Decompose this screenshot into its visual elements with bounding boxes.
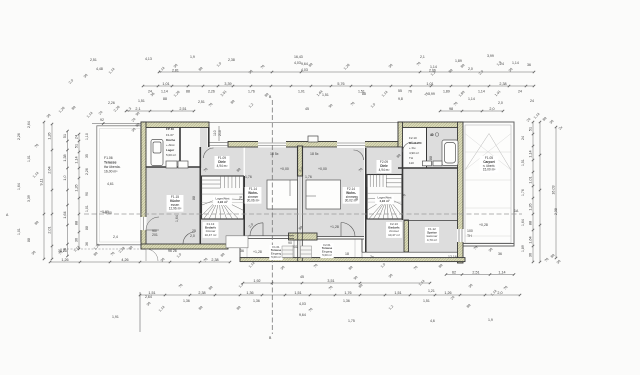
dimension chain top 1	[158, 71, 535, 73]
svg-text:2,38: 2,38	[198, 291, 205, 295]
svg-text:9,8: 9,8	[398, 97, 403, 101]
svg-text:24: 24	[518, 90, 522, 94]
svg-text:88: 88	[75, 221, 79, 225]
dimension chain left 3	[66, 130, 68, 257]
wall top center	[228, 142, 398, 148]
svg-text:2,01: 2,01	[48, 226, 52, 233]
svg-text:2,0: 2,0	[468, 67, 473, 71]
svg-text:1,64: 1,64	[175, 215, 179, 222]
svg-text:2,38: 2,38	[228, 58, 235, 62]
scattered left annotations	[27, 105, 121, 242]
svg-text:Bad&WC: Bad&WC	[409, 141, 423, 145]
svg-text:TH: TH	[467, 234, 472, 238]
svg-text:+0,00: +0,00	[103, 211, 112, 215]
svg-text:+0,00: +0,00	[318, 167, 327, 171]
window left living top	[258, 141, 286, 148]
room floor diele left	[202, 147, 244, 176]
svg-text:1,26: 1,26	[48, 132, 52, 139]
svg-text:2,38: 2,38	[499, 82, 506, 86]
room floor bath right	[427, 127, 458, 168]
dim text top overall	[172, 61, 531, 73]
svg-text:4,03: 4,03	[299, 302, 306, 306]
room floor diele right	[367, 148, 402, 175]
svg-text:2,38: 2,38	[211, 258, 218, 262]
svg-text:88: 88	[85, 226, 89, 230]
niche box at left entry step	[226, 236, 248, 248]
door swing diele right	[354, 150, 364, 160]
svg-text:F1.06: F1.06	[104, 156, 113, 160]
label bedarfszimmer left	[203, 222, 219, 238]
carport annotations	[467, 223, 488, 238]
dimension chain top 3a	[125, 110, 195, 112]
svg-text:5,00 m²: 5,00 m²	[271, 255, 281, 259]
svg-text:24: 24	[75, 135, 79, 139]
svg-text:4,94 m²: 4,94 m²	[379, 168, 390, 172]
svg-text:92: 92	[100, 118, 104, 122]
svg-text:30,06 m²: 30,06 m²	[247, 199, 260, 203]
kitchen counter left	[151, 140, 188, 169]
svg-text:88: 88	[529, 221, 533, 225]
svg-text:12 16: 12 16	[448, 255, 457, 259]
label living right	[343, 187, 360, 204]
dimension chain right 1	[532, 121, 534, 263]
svg-text:4,94 m²: 4,94 m²	[380, 199, 390, 203]
svg-text:1,14: 1,14	[468, 97, 475, 101]
axis labels	[6, 95, 519, 340]
svg-text:1,14: 1,14	[478, 90, 485, 94]
svg-text:1,9: 1,9	[488, 318, 493, 322]
svg-text:16,43: 16,43	[294, 55, 303, 59]
svg-text:3,39: 3,39	[27, 195, 31, 202]
svg-text:36: 36	[529, 253, 533, 257]
svg-text:2,0: 2,0	[489, 107, 494, 111]
wall bottom lower section	[240, 258, 465, 262]
svg-text:36: 36	[527, 63, 531, 67]
svg-text:1,51: 1,51	[138, 99, 145, 103]
window right wall	[457, 229, 464, 242]
svg-text:1,01: 1,01	[529, 176, 533, 183]
svg-text:9,64: 9,64	[301, 62, 308, 66]
label diele right	[377, 160, 392, 173]
window top opening between bump and center	[209, 143, 228, 146]
svg-text:+0,28: +0,28	[479, 223, 488, 227]
label kueche bump	[166, 127, 176, 157]
svg-text:9,64: 9,64	[299, 313, 306, 317]
svg-text:35: 35	[85, 154, 89, 158]
svg-text:88: 88	[163, 97, 167, 101]
svg-text:4,61: 4,61	[107, 182, 114, 186]
svg-text:2,51: 2,51	[179, 107, 186, 111]
svg-text:+ Du: + Du	[409, 146, 416, 150]
svg-text:40: 40	[430, 133, 434, 137]
svg-text:36: 36	[240, 249, 244, 253]
porch steps right	[301, 246, 312, 258]
room floor living left	[245, 147, 298, 236]
svg-text:16,00 m²: 16,00 m²	[104, 170, 118, 174]
svg-text:1,76: 1,76	[521, 189, 525, 196]
left inner text column	[85, 133, 89, 246]
svg-text:51: 51	[529, 127, 533, 131]
svg-text:2,51: 2,51	[198, 100, 205, 104]
dimension chain bottom 2	[445, 273, 515, 275]
svg-text:16,03: 16,03	[552, 185, 556, 194]
svg-text:2,26: 2,26	[17, 133, 21, 140]
svg-text:tlw überda.: tlw überda.	[104, 165, 121, 169]
svg-text:76: 76	[239, 196, 243, 200]
wall party upper	[297, 146, 302, 176]
svg-text:1,14: 1,14	[161, 90, 168, 94]
svg-text:2,26: 2,26	[108, 101, 115, 105]
svg-text:1,01: 1,01	[162, 82, 169, 86]
svg-text:1,92: 1,92	[253, 279, 260, 283]
interior opening marks	[175, 152, 406, 231]
scattered bottom annotations	[58, 245, 502, 323]
svg-text:Lager: Lager	[166, 148, 175, 152]
svg-text:2,4: 2,4	[113, 235, 118, 239]
svg-text:76: 76	[408, 90, 412, 94]
ground dashed line bottom left	[60, 248, 141, 250]
svg-text:1,64: 1,64	[63, 211, 67, 218]
label living left	[245, 187, 262, 204]
svg-text:10,47 m²: 10,47 m²	[388, 233, 400, 237]
wall right exterior	[458, 122, 464, 263]
scattered top annotations	[90, 54, 534, 105]
svg-text:51: 51	[75, 144, 79, 148]
svg-text:36: 36	[498, 252, 502, 256]
svg-text:24: 24	[530, 99, 534, 103]
svg-text:4,6: 4,6	[430, 319, 435, 323]
svg-text:210: 210	[218, 130, 222, 136]
svg-text:1,36: 1,36	[246, 291, 253, 295]
staircase right unit	[367, 175, 402, 220]
svg-text:9,11: 9,11	[40, 179, 44, 186]
svg-text:88: 88	[355, 196, 359, 200]
svg-text:3,51: 3,51	[327, 279, 334, 283]
door swing bath	[403, 142, 413, 152]
svg-text:+ Abst: + Abst	[166, 143, 175, 147]
svg-text:+1,28: +1,28	[330, 225, 339, 229]
svg-text:+0,00: +0,00	[280, 167, 289, 171]
svg-text:45: 45	[305, 107, 309, 111]
svg-text:4,94 m²: 4,94 m²	[218, 200, 228, 204]
door swing kitchen	[183, 232, 195, 244]
svg-text:1,26: 1,26	[61, 258, 68, 262]
svg-text:1,01: 1,01	[426, 82, 433, 86]
extra annotation noise	[17, 60, 558, 290]
carport right	[462, 122, 514, 246]
staircase left unit label	[213, 196, 232, 205]
svg-text:+1,28: +1,28	[253, 250, 262, 254]
terrace top marks	[100, 117, 140, 133]
wall speise left	[404, 220, 409, 252]
thin wall bottom left living	[228, 236, 294, 258]
axis A horizontal dashed	[84, 213, 522, 215]
svg-text:88: 88	[192, 196, 196, 200]
staircase left unit	[202, 176, 244, 219]
interior walls right unit	[366, 147, 458, 252]
svg-text:4,94 m²: 4,94 m²	[217, 164, 228, 168]
window dim line at bump	[218, 126, 220, 141]
svg-text:1,75: 1,75	[348, 319, 355, 323]
room floor speise right	[402, 168, 458, 252]
room floor living right	[303, 148, 365, 237]
label bad	[409, 136, 423, 165]
scattered right annotations	[526, 112, 564, 265]
right inner text column	[521, 136, 525, 252]
svg-text:1,14: 1,14	[75, 156, 79, 163]
svg-text:1,01: 1,01	[17, 228, 21, 235]
svg-text:2x: 2x	[370, 255, 374, 259]
interior walls left unit	[146, 127, 244, 244]
carport label	[480, 156, 499, 173]
svg-text:4,03: 4,03	[301, 68, 308, 72]
svg-text:100: 100	[467, 229, 473, 233]
outside step arc bottom left	[146, 249, 158, 261]
label entry right	[320, 243, 333, 258]
section mark bottom left	[139, 292, 141, 332]
dimension chain bottom 4	[139, 294, 521, 296]
svg-text:2,38: 2,38	[554, 208, 558, 215]
svg-text:1,26: 1,26	[444, 291, 451, 295]
svg-text:110: 110	[213, 130, 217, 136]
svg-text:18 5x: 18 5x	[310, 152, 319, 156]
svg-text:1,14: 1,14	[512, 61, 519, 65]
interior small marks	[103, 167, 339, 254]
svg-text:88: 88	[429, 156, 433, 160]
wall bottom at party wall	[289, 233, 318, 240]
svg-text:96 26: 96 26	[168, 249, 177, 253]
svg-text:4,13: 4,13	[145, 57, 152, 61]
axis B vertical dashed	[271, 100, 273, 334]
svg-text:1,14: 1,14	[430, 65, 437, 69]
svg-text:Terasse: Terasse	[104, 161, 117, 165]
svg-text:88: 88	[27, 238, 31, 242]
svg-text:2,0: 2,0	[190, 234, 195, 238]
dimension chain bottom 1	[49, 261, 231, 263]
svg-text:88: 88	[186, 90, 190, 94]
bath divider wall	[426, 127, 428, 168]
svg-text:36: 36	[85, 242, 89, 246]
terrace left	[97, 126, 143, 245]
svg-text:2,51: 2,51	[90, 58, 97, 62]
thin wall bottom right living	[317, 237, 458, 253]
svg-text:4,70 m²: 4,70 m²	[427, 238, 437, 242]
svg-text:5,00 m²: 5,00 m²	[322, 253, 332, 257]
svg-text:4,26: 4,26	[121, 258, 128, 262]
svg-text:TH: TH	[409, 156, 413, 160]
svg-text:2,26: 2,26	[85, 168, 89, 175]
svg-text:2,26: 2,26	[208, 90, 215, 94]
balcony overhang outline	[209, 123, 398, 142]
svg-text:F2.10: F2.10	[409, 136, 417, 140]
svg-text:Küche: Küche	[166, 138, 176, 142]
door opening left wall	[141, 217, 160, 230]
svg-text:1,21: 1,21	[428, 289, 435, 293]
door swing diele left	[204, 148, 214, 158]
svg-text:1,76: 1,76	[248, 90, 255, 94]
svg-text:F1.07: F1.07	[166, 133, 174, 137]
svg-text:98: 98	[449, 107, 453, 111]
svg-text:10,47 m²: 10,47 m²	[205, 233, 217, 237]
svg-text:45: 45	[300, 275, 304, 279]
svg-text:2,81: 2,81	[172, 69, 179, 73]
svg-text:1,64: 1,64	[529, 236, 533, 243]
svg-text:1,36: 1,36	[343, 299, 350, 303]
dimension chain left 1	[43, 121, 45, 260]
svg-text:1,64: 1,64	[17, 183, 21, 190]
label diele left	[215, 156, 230, 169]
svg-text:201: 201	[152, 233, 158, 237]
wall left exterior	[141, 122, 146, 249]
svg-text:62: 62	[452, 270, 456, 274]
party wall center lines	[298, 146, 303, 261]
svg-text:1,76: 1,76	[305, 175, 312, 179]
wall top of bath bump	[398, 122, 462, 128]
svg-text:2,64: 2,64	[48, 166, 52, 173]
svg-text:4,90 m²: 4,90 m²	[409, 151, 419, 155]
svg-text:12,96 m²: 12,96 m²	[169, 207, 182, 211]
svg-text:1,76: 1,76	[344, 291, 351, 295]
svg-text:1,89: 1,89	[443, 90, 450, 94]
label kitchen left	[167, 195, 184, 212]
svg-text:2,64: 2,64	[27, 121, 31, 128]
svg-text:2,64: 2,64	[145, 295, 152, 299]
bath door mark	[430, 133, 434, 137]
svg-text:1A: 1A	[514, 209, 519, 213]
svg-text:1,01: 1,01	[85, 205, 89, 212]
svg-text:1,64: 1,64	[521, 219, 525, 226]
svg-text:1,38: 1,38	[63, 154, 67, 161]
porch left entry	[240, 239, 294, 258]
svg-text:15,00 m²: 15,00 m²	[483, 168, 496, 172]
svg-text:1,89: 1,89	[521, 245, 525, 252]
svg-text:1,91: 1,91	[112, 315, 119, 319]
svg-text:1,76: 1,76	[245, 175, 252, 179]
terrace top dim line	[92, 122, 142, 124]
furniture left living	[267, 180, 298, 209]
svg-text:2,1: 2,1	[420, 55, 425, 59]
door swing right living to porch	[341, 223, 355, 237]
svg-text:88: 88	[362, 92, 366, 96]
svg-text:FP 40: FP 40	[166, 127, 174, 131]
svg-text:1,26: 1,26	[75, 184, 79, 191]
porch steps left	[282, 246, 293, 258]
svg-text:5,00 m²: 5,00 m²	[166, 153, 176, 157]
svg-text:1,0: 1,0	[63, 175, 67, 180]
window right living top	[337, 141, 365, 148]
svg-text:1,36: 1,36	[253, 299, 260, 303]
svg-text:1,14: 1,14	[529, 150, 533, 157]
svg-text:3,99: 3,99	[487, 54, 494, 58]
svg-text:1,51: 1,51	[521, 159, 525, 166]
svg-text:36: 36	[75, 238, 79, 242]
svg-text:1,26: 1,26	[529, 203, 533, 210]
wall left of bath bump	[398, 122, 403, 147]
svg-text:2,1: 2,1	[135, 107, 140, 111]
svg-text:1,51: 1,51	[294, 291, 301, 295]
svg-text:1,14: 1,14	[498, 270, 505, 274]
wall top of kitchen bump	[141, 122, 209, 128]
chimney block top wall	[308, 136, 318, 142]
svg-text:25: 25	[192, 229, 196, 233]
room floor kitchen bump right part	[200, 127, 207, 168]
terrace annotations	[100, 182, 118, 239]
dimension chain right 3	[555, 126, 557, 259]
svg-text:55: 55	[398, 89, 402, 93]
dimension chain right 2	[539, 121, 541, 263]
furniture right living	[306, 180, 341, 209]
dimension chain bottom 3	[242, 282, 431, 284]
window dims	[213, 130, 433, 160]
door swing left living to porch	[250, 223, 263, 236]
bath fixtures right	[422, 140, 458, 166]
dimension chain left 4	[78, 133, 80, 250]
room floor kitchen-essen left	[146, 168, 200, 245]
svg-text:1,51: 1,51	[423, 299, 430, 303]
wall bottom left	[141, 244, 228, 249]
svg-text:1,10: 1,10	[85, 133, 89, 140]
dimension chain top 3b	[439, 110, 504, 112]
label entry left	[269, 245, 282, 260]
svg-text:1,01: 1,01	[298, 90, 305, 94]
svg-text:4,03: 4,03	[294, 61, 301, 65]
svg-text:18: 18	[345, 252, 349, 256]
staircase right unit label	[375, 196, 394, 205]
svg-text:4,48: 4,48	[96, 67, 103, 71]
porch right entry	[300, 239, 362, 258]
svg-text:1,36: 1,36	[183, 299, 190, 303]
svg-text:2,0: 2,0	[497, 291, 502, 295]
svg-text:1,9: 1,9	[190, 55, 195, 59]
svg-text:51: 51	[63, 134, 67, 138]
label bedarfszimmer right	[386, 222, 402, 238]
svg-text:2,0: 2,0	[498, 101, 503, 105]
svg-text:18 5x: 18 5x	[270, 152, 279, 156]
svg-text:24: 24	[521, 136, 525, 140]
svg-text:5,76: 5,76	[337, 82, 344, 86]
room floor bedarfszimmer right	[367, 219, 404, 252]
room floor bedarfszimmer left	[202, 219, 244, 244]
svg-text:2,51: 2,51	[472, 270, 479, 274]
dim text rows top	[148, 90, 522, 98]
svg-text:1,89: 1,89	[455, 59, 462, 63]
svg-text:1,51: 1,51	[394, 291, 401, 295]
label speise	[425, 227, 439, 243]
dimension chain left 2	[51, 123, 53, 260]
svg-text:1,01: 1,01	[27, 155, 31, 162]
dimension chain top 2	[142, 85, 535, 87]
svg-text:3,99: 3,99	[428, 92, 435, 96]
terrace label	[104, 156, 121, 174]
svg-text:90: 90	[85, 192, 89, 196]
svg-text:1,51: 1,51	[322, 93, 329, 97]
svg-text:3,39: 3,39	[224, 82, 231, 86]
svg-text:110: 110	[409, 161, 414, 165]
